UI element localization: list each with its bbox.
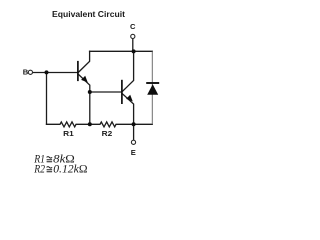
- svg-text:0.12kΩ: 0.12kΩ: [53, 161, 87, 175]
- svg-text:R1: R1: [63, 129, 74, 138]
- svg-text:B: B: [23, 67, 29, 76]
- svg-text:R2: R2: [102, 129, 113, 138]
- svg-text:C: C: [130, 22, 136, 31]
- svg-text:R2: R2: [33, 161, 45, 175]
- svg-text:Equivalent Circuit: Equivalent Circuit: [52, 9, 125, 19]
- svg-text:E: E: [131, 148, 136, 157]
